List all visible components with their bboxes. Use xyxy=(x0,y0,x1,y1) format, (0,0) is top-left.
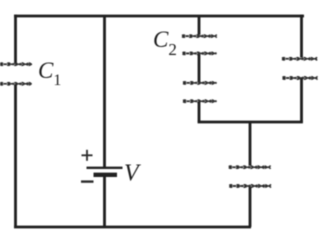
wire right branch lower segment xyxy=(300,79,303,123)
capacitor plates (unlabeled, right branch) xyxy=(282,58,318,80)
capacitor C2 plates (upper capacitor of middle branch) xyxy=(182,35,217,55)
capacitor plates (unlabeled, bottom branch) xyxy=(229,166,271,187)
battery V short negative plate xyxy=(94,173,118,177)
svg-text:C1: C1 xyxy=(38,58,61,89)
battery minus sign xyxy=(81,180,94,182)
wire middle branch from top wire xyxy=(198,16,201,35)
wire middle branch between the two capacitors xyxy=(198,55,201,83)
battery V long positive plate xyxy=(87,167,123,169)
wire inner bottom: joins middle and right branches xyxy=(198,121,303,124)
wire right branch upper segment xyxy=(300,15,303,58)
capacitor plates (unlabeled, lower capacitor of middle branch) xyxy=(183,82,217,103)
svg-text:C2: C2 xyxy=(153,27,177,59)
battery plus sign xyxy=(82,150,93,161)
wire bottom: left corner to bottom capacitor branch xyxy=(14,226,251,229)
wire bottom capacitor branch upper segment xyxy=(249,122,252,166)
wire middle branch lower segment to inner bottom wire xyxy=(198,102,201,122)
wire top: left corner to right corner xyxy=(14,15,304,18)
wire bottom capacitor branch lower segment xyxy=(249,187,252,227)
wire left upper segment xyxy=(14,15,17,64)
wire battery branch lower xyxy=(103,177,106,227)
wire left lower segment xyxy=(14,85,17,228)
capacitor C1 plates xyxy=(0,63,32,85)
svg-text:V: V xyxy=(124,161,141,187)
wire battery branch upper xyxy=(103,16,106,167)
